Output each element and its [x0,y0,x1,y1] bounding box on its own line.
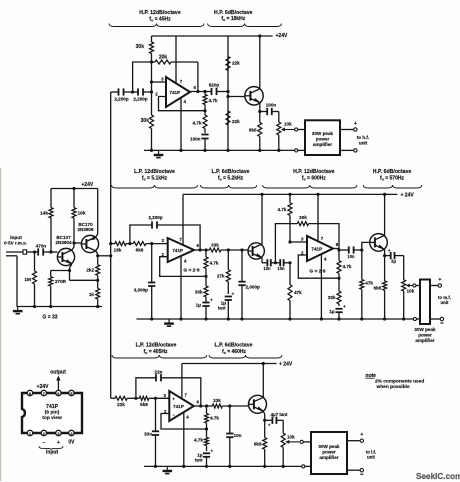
pin 7 wire M1 [179,194,183,245]
wire emitter tee to 270R [51,270,70,272]
wire input bus top to cap [111,91,119,93]
potentiometer 10k level lf [281,420,295,466]
svg-text:fo = 600Hz: fo = 600Hz [302,175,326,181]
wire 6k8 to pin3 M1 [146,242,168,245]
wire Q4 emitter down [261,257,263,262]
capacitor 1u tant mid [218,292,235,320]
svg-text:+: + [354,121,357,127]
IC pins top row [27,390,74,396]
resistor 6k8 emitter load bottom [254,420,267,466]
label minus plus input pins [42,440,60,446]
wire 22k to 6k8 bottom [127,397,139,400]
transistor Q6 emitter follower bottom [249,395,267,413]
IC pins bottom row [27,430,74,436]
wire M2 output [333,242,349,252]
svg-text:1μ: 1μ [391,259,397,264]
terminal mid bus to amp [413,317,420,320]
node B junction [131,80,153,93]
pin 4 wire M2 [321,255,327,319]
resistor 30k hp feedback [297,215,308,226]
bracket under input pins [39,446,63,450]
capacitor 1u tant B1 [195,449,214,467]
wiper arrow hf pot [281,128,295,132]
label L.P. 6dB/octave header mid [212,169,250,181]
wire Q6 emitter down [263,411,266,422]
resistor 6k8 lowpass [133,242,146,253]
label +24V mid rail [401,192,415,198]
label +24V bottom rail [279,362,293,368]
svg-text:G = 2·6: G = 2·6 [183,268,199,274]
capacitor 100n output coupling [260,103,279,116]
pin 4 wire U1 [181,98,187,151]
ground symbol input stage [13,307,23,314]
svg-text:unit: unit [440,300,449,305]
wire hp feedback 30k [275,224,297,263]
capacitor 1u divider M1 [196,298,213,320]
label to l.f. unit [366,450,377,460]
wiper arrow lf pot [285,440,299,444]
terminal bottom bus to amp [302,465,311,468]
IC body 741P [22,393,82,433]
wire Q2 emitter to rail [96,189,98,238]
svg-text:820p: 820p [209,83,220,88]
ground bus top section [144,149,295,151]
svg-text:33k: 33k [211,243,219,248]
label input IC diagram [46,450,59,456]
pin 7 wire B1 [182,364,188,399]
svg-text:3,300p: 3,300p [134,288,148,293]
svg-text:2,200p: 2,200p [133,97,147,102]
pin 2 loop B1 [161,414,207,430]
label output IC diagram [50,370,66,376]
svg-text:4.7k: 4.7k [209,98,218,103]
svg-text:amplifier: amplifier [415,338,434,343]
label H.P. 12dB/octave section header [139,10,181,23]
pin 2 feedback loop U1 [159,97,206,111]
wire 22k bias vertical [226,36,229,150]
wire feedback to output [197,62,199,92]
pin 2 label M2 [301,251,304,256]
ground bus mid section [137,318,414,320]
svg-text:2,200p: 2,200p [148,215,162,220]
svg-text:fo = 18kHz: fo = 18kHz [221,16,245,22]
svg-text:4.7k: 4.7k [210,416,219,421]
svg-text:L.P. 12dB/octave: L.P. 12dB/octave [134,169,175,175]
label H.P. 12dB/octave header mid [293,169,335,181]
wire to Q5 base [360,242,369,251]
capacitor 1u divider M2 [329,304,346,319]
svg-text:22k: 22k [232,119,240,124]
svg-text:L.P. 6dB/octave: L.P. 6dB/octave [212,169,250,175]
wire bottom input line [111,397,115,399]
svg-text:H.P. 12dB/octave: H.P. 12dB/octave [293,169,335,175]
wire node X to Q2 base [74,242,81,244]
svg-text:+: + [360,432,363,438]
svg-text:fo = 405Hz: fo = 405Hz [144,349,168,355]
capacitor 10n output M2 [347,246,361,259]
svg-text:top view: top view [42,415,62,421]
svg-text:30W peak: 30W peak [312,131,334,136]
resistor 4.7k feedback upper [203,92,218,113]
label 0V pin4 [68,440,75,446]
svg-text:30k: 30k [299,215,307,220]
svg-text:1μ: 1μ [196,303,202,308]
label +24V input stage [81,182,93,188]
svg-text:10k: 10k [407,289,415,294]
svg-text:SeekIC.com: SeekIC.com [416,472,460,481]
svg-text:30k: 30k [136,44,145,50]
wire Q5 emitter down [384,249,386,255]
op-amp M2 741P mid highpass [307,236,333,261]
svg-text:33n: 33n [144,432,152,437]
capacitor 470n input coupling [36,244,47,256]
svg-text:18k: 18k [114,248,122,253]
wire input to cap [27,251,38,253]
pin 2 loop M1 [160,257,206,277]
svg-text:33k: 33k [195,290,203,295]
brace LP12 mid [112,185,198,188]
svg-text:2k2: 2k2 [86,268,94,273]
svg-text:+: + [172,397,175,402]
pin 3 label M1 [162,238,165,243]
label 741P 8 pin top view [42,404,62,421]
label +24V IC diagram [37,384,49,390]
capacitor 22n feedback bottom [136,370,201,407]
capacitor 820p coupling [209,83,228,96]
wire pin3 node M2 [288,240,307,264]
terminal ground to amp box top [295,149,305,152]
svg-text:1μ: 1μ [329,309,335,314]
resistor 1M input bias [24,252,36,307]
terminal hf pot to amp [295,128,305,131]
resistor 4.7k feedback lower [193,111,207,133]
svg-text:output: output [50,370,66,376]
svg-text:741P: 741P [311,246,322,251]
junction dots mid ground bus [150,317,405,320]
svg-text:L.P. 12dB/octave: L.P. 12dB/octave [136,343,177,349]
svg-text:tant: tant [195,458,203,463]
svg-text:+24V: +24V [276,33,288,39]
capacitor 10n second hp [277,259,290,271]
resistor 18k lowpass [114,242,127,253]
wire Q2 output to bus [96,254,112,257]
svg-text:fo = 5.1kHz: fo = 5.1kHz [142,175,168,181]
svg-text:4.7k: 4.7k [343,264,352,269]
input connector [6,250,27,307]
junction dots bottom bus [154,465,285,468]
resistor 22k bias upper [226,57,240,71]
wiper arrow mf pot [406,284,413,288]
svg-text:+24V: +24V [81,182,93,188]
resistor 47k bias ground mid [288,263,302,319]
pin 2 loop M2 [298,255,339,278]
svg-text:10n: 10n [347,254,355,259]
svg-text:input: input [46,450,59,456]
resistor 4.7k divider B1 [205,406,220,431]
label G = 2.6 M1 [183,268,199,274]
wire 33k to base Q6 [222,404,248,407]
svg-text:tant: tant [218,306,226,311]
capacitor 10n bottom [226,406,241,466]
junction dots top ground bus [150,149,281,152]
capacitor 4u7 tant coupling [265,412,288,428]
resistor 22k lowpass bottom [115,396,127,407]
ground bus input stage [16,305,102,308]
resistor 4.7k bias rail mid [278,193,292,242]
op-amp B1 741P bottom [169,391,194,421]
wire +24V rail top [152,35,273,37]
label H.P. 6dB/octave header mid [373,169,412,181]
resistor 6k8 lowpass bottom [139,396,149,407]
resistor 27k bias mid [217,250,230,294]
wire Q5 collector to rail [383,193,386,236]
svg-text:power: power [316,137,330,142]
label input 0-5V r.m.s. [4,235,27,246]
resistor 6k8 emitter load [249,112,262,151]
svg-text:+: + [57,440,60,446]
svg-text:741P: 741P [172,248,183,253]
svg-text:30k: 30k [141,118,150,124]
svg-text:when possible: when possible [376,384,410,390]
wire Q2 collector down [96,251,98,265]
svg-text:10k: 10k [78,211,86,217]
svg-text:1M: 1M [24,277,31,283]
resistor 30k bias upper [136,36,154,62]
output terminals lf [347,432,363,474]
svg-text:power: power [322,450,336,455]
svg-text:4.7k: 4.7k [193,121,202,126]
resistor 30k bias lower [141,92,154,150]
pin 2 label M1 [162,252,165,257]
brace HP6 mid [363,185,422,188]
output terminals hf [340,121,357,152]
wire Q6 collector to rail [262,362,265,397]
svg-text:100n: 100n [190,137,201,142]
svg-text:741P: 741P [46,404,59,410]
ground symbol top section [154,150,164,157]
svg-text:6k8: 6k8 [249,128,257,133]
svg-text:2N3906: 2N3906 [77,227,94,232]
brace HP6 section [208,24,282,27]
terminal lf pot to amp [300,440,311,443]
svg-text:G = 33: G = 33 [42,315,57,321]
wire +24V rail bottom [182,363,277,365]
svg-text:+: + [438,277,441,283]
brace HP12 mid [263,185,358,188]
svg-text:+ 24V: + 24V [279,362,293,368]
svg-text:to h.f.: to h.f. [357,135,370,140]
label BC107 2N3904 [55,235,72,245]
svg-text:20k: 20k [159,55,168,61]
label BC170 2N3906 [77,222,94,232]
pin 3 label B1 [164,393,167,398]
svg-text:10k: 10k [284,122,292,127]
brace HP12 section [109,24,204,27]
label L.P. 6dB/octave header bottom [215,343,253,355]
wire Q3 emitter down [258,103,261,113]
svg-text:2,200p: 2,200p [114,97,128,102]
pin 3 label U1 [161,77,164,82]
wire base to Q3 [226,95,245,98]
svg-text:4.7k: 4.7k [210,261,219,266]
svg-text:H.P. 12dB/octave: H.P. 12dB/octave [139,10,181,16]
transistor Q3 emitter follower [245,87,263,105]
resistor 1k feedback lower [89,280,100,306]
op-amp U1 741P top [166,77,190,107]
resistor 33k output bottom [212,398,222,408]
label G = 2.6 M2 [309,269,325,275]
wire 30k to output M2 [309,224,339,250]
svg-text:H.P. 6dB/octave: H.P. 6dB/octave [373,169,412,175]
svg-text:G = 2·6: G = 2·6 [309,269,325,275]
svg-text:10n: 10n [234,433,242,438]
capacitor 3,300p to ground [134,244,156,319]
watermark SeekIC.com [416,472,460,481]
brace LP6 bottom [209,355,282,358]
ground bus bottom section [144,465,302,467]
resistor 33k divider M1 [195,276,208,302]
amplifier box 30W lf [311,432,347,474]
svg-text:+: + [343,304,346,309]
transistor Q5 emitter follower mid [370,234,388,252]
svg-text:47k: 47k [294,290,302,295]
svg-text:0V: 0V [68,440,75,446]
svg-text:fo = 45Hz: fo = 45Hz [149,17,171,23]
svg-text:10n: 10n [277,266,285,271]
wire 33k to base Q4 [221,248,248,251]
amplifier box 30W hf [305,120,340,155]
svg-text:470n: 470n [36,244,47,249]
svg-text:fo = 460Hz: fo = 460Hz [222,349,246,355]
svg-text:4.7k: 4.7k [278,207,287,212]
ground symbol bottom section [163,466,173,473]
svg-text:fo = 5.2kHz: fo = 5.2kHz [218,175,244,181]
svg-text:30W peak: 30W peak [414,327,436,332]
pin 7 wire U1 [176,36,183,84]
svg-text:33k: 33k [213,398,221,403]
brace LP12 bottom [112,355,207,358]
resistor 4.7k divider M2 [337,250,352,280]
svg-text:−: − [172,412,175,417]
svg-text:22k: 22k [232,61,240,66]
svg-text:+: + [388,248,391,253]
svg-text:2,000p: 2,000p [246,285,260,290]
amplifier box 30W mf [420,280,430,325]
resistor 10k collector load [72,187,86,243]
wire Q1 collector to node X [72,241,76,250]
potentiometer 10k level mf [402,256,415,319]
resistor 4.7k divider lower B1 [194,429,208,451]
pin 7 wire M2 [316,193,323,241]
svg-text:6k8: 6k8 [136,248,144,253]
svg-text:14k: 14k [40,211,48,217]
svg-text:22n: 22n [155,370,163,375]
svg-text:10n: 10n [263,266,271,271]
label to h.f. unit [357,135,370,146]
label to m.f. unit [438,295,451,305]
ground symbol mid section [164,319,174,326]
svg-text:+: + [268,423,271,428]
capacitor 33n to ground [144,398,159,466]
svg-text:0·5V r.m.s.: 0·5V r.m.s. [4,241,27,246]
svg-text:+: + [211,449,214,454]
resistor 4.7k divider M1 [204,250,219,278]
terminal mf pot to amp [413,284,420,287]
wire bias vertical to pin3 [152,62,167,92]
svg-text:741P: 741P [173,404,184,409]
svg-text:2% components used: 2% components used [375,379,424,385]
svg-text:L.P. 6dB/octave: L.P. 6dB/octave [215,343,253,349]
wire feedback Q1 emitter to divider [70,279,100,282]
svg-text:unit: unit [367,455,376,460]
wire 6k8 to pin3 B1 [149,397,169,400]
note 2% components [365,373,424,390]
capacitor 2,200p first [114,88,138,101]
node A junction top filter [150,60,153,63]
svg-text:4.7k: 4.7k [194,438,203,443]
svg-text:+ 24V: + 24V [401,192,415,198]
svg-text:100n: 100n [266,103,277,108]
wire +24V rail mid [183,193,397,195]
resistor 47k load M2 [360,250,374,319]
pin 2 label U1 [155,92,158,97]
capacitor 10n first hp [262,259,271,271]
resistor 14k bias [40,189,53,253]
capacitor 2,200p second [133,88,151,101]
svg-text:(8 pin): (8 pin) [45,409,60,415]
svg-text:6k8: 6k8 [254,442,262,447]
svg-text:6k8: 6k8 [374,286,382,291]
op-amp M1 741P mid lowpass [168,238,194,262]
plus minus marks B1 [172,397,175,418]
wire B1 output [194,400,213,408]
wire U1 output [190,85,211,93]
svg-text:30W peak: 30W peak [318,444,340,449]
pin 4 wire M1 [181,256,187,320]
capacitor 1u coupling mid out [385,248,404,264]
transistor Q4 emitter follower mid [248,243,264,259]
svg-text:+: + [232,292,235,297]
svg-text:unit: unit [359,141,368,146]
wire +24V rail input stage [51,188,98,190]
resistor 6k8 emitter load mid [374,254,387,319]
pin 3 label M2 [301,237,304,242]
resistor 2k2 feedback [86,265,99,281]
svg-text:6k8: 6k8 [140,402,148,407]
wire cap to Q1 base [33,250,58,253]
svg-text:power: power [418,333,432,338]
label G = 33 [42,315,57,321]
resistor 33k output mid [209,243,221,253]
svg-text:−: − [42,440,45,446]
scan edge artifact left [0,168,2,481]
capacitor 100n decoupling gain [190,135,209,151]
wire Q4 collector to rail [260,193,263,245]
pin 2 label B1 [164,409,167,414]
svg-text:47k: 47k [365,281,373,286]
label 30W peak power amplifier mf [414,327,436,343]
svg-text:4μ7 tant: 4μ7 tant [271,412,288,417]
label L.P. 12dB/octave header bottom [136,343,177,355]
wire signal bus vertical [109,92,112,398]
svg-text:270R: 270R [55,279,67,284]
wire M1 output [194,243,209,252]
svg-text:2N3904: 2N3904 [55,240,72,245]
svg-text:amplifier: amplifier [319,455,338,460]
wire 18k to 6k8 [126,242,133,245]
svg-text:22k: 22k [117,402,125,407]
wire mid input line [111,243,115,245]
